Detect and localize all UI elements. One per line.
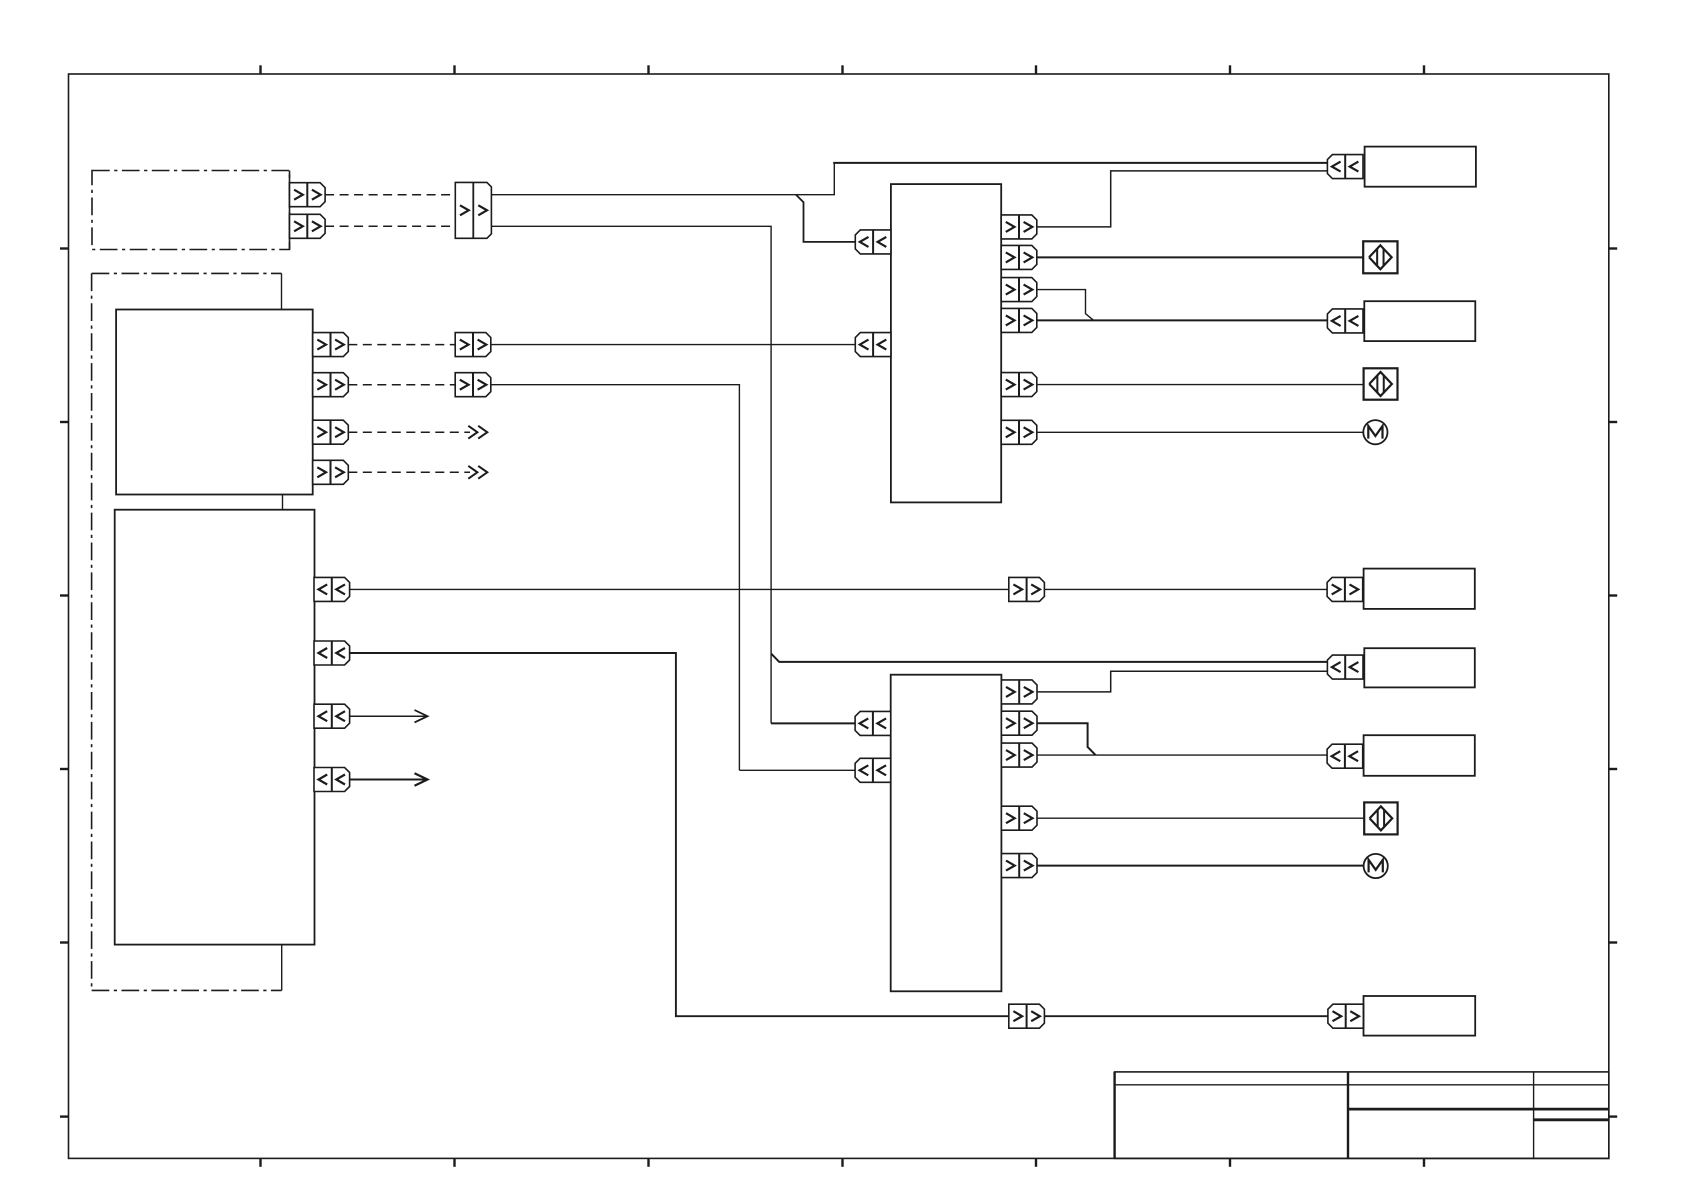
top border tick 5 <box>1035 65 1037 74</box>
connector E1 <box>314 577 350 601</box>
terminator T4 <box>1364 648 1475 687</box>
region C solid stub from box E <box>281 945 283 991</box>
module M2 <box>891 675 1002 992</box>
wire W2 from B down <box>491 226 771 723</box>
wire W4 into module M2 left input <box>739 769 855 771</box>
connector T5c <box>1327 744 1363 768</box>
bottom border tick 2 <box>453 1158 455 1166</box>
terminator T5 <box>1364 735 1475 776</box>
wire W11 M1-R5 to valve V2 <box>1037 384 1364 386</box>
region C dash-dot left edge <box>91 273 93 990</box>
connector M2-R2 <box>1001 711 1037 735</box>
wire W10 M1-R4 to T2 <box>1037 319 1328 321</box>
bottom border tick 3 <box>647 1158 649 1166</box>
connector E2 <box>314 641 350 665</box>
left border tick 4 <box>60 768 69 770</box>
wire W7 M1-R1 up to T1 <box>1037 171 1328 227</box>
region C dash-dot top edge <box>92 272 282 274</box>
connector M2-L2 <box>855 758 891 782</box>
connector E4 <box>314 768 350 792</box>
dashed wire D1 to P1 <box>348 344 455 346</box>
top border tick 4 <box>841 65 843 74</box>
right border tick 6 <box>1609 1115 1617 1117</box>
dashed wire A2 to B <box>325 225 455 227</box>
arrow E3 off-sheet <box>350 715 428 717</box>
connector M1-R2 <box>1001 245 1037 269</box>
wire W3 P1 to module M1 left <box>491 344 856 346</box>
wire W14 M2-R2 jog <box>1037 723 1096 755</box>
box A dash-dot enclosure <box>92 171 290 250</box>
box E control unit <box>115 510 315 945</box>
connector pair P3 <box>1009 577 1045 601</box>
title block left edge bold <box>1113 1072 1115 1159</box>
motor M4 <box>1364 854 1388 878</box>
wire W16 M2-R4 to valve V3 <box>1037 817 1364 819</box>
connector pair P4 <box>1009 1004 1045 1028</box>
bottom border tick 6 <box>1229 1158 1231 1166</box>
connector M1-L1 <box>855 230 891 254</box>
motor M3 <box>1363 420 1387 444</box>
top border tick 1 <box>259 65 261 74</box>
top border tick 7 <box>1423 65 1425 74</box>
top border tick 6 <box>1229 65 1231 74</box>
wire W1 from B to step <box>491 163 834 195</box>
right border tick 3 <box>1609 594 1617 596</box>
connector E3 <box>314 704 350 728</box>
connector D3 <box>313 420 349 444</box>
title block divider 1 <box>1347 1072 1349 1159</box>
connector D1 <box>313 333 349 357</box>
valve V2 <box>1364 368 1398 399</box>
wire W8 M1-R2 to valve V1 <box>1037 256 1363 258</box>
bottom border tick 5 <box>1035 1158 1037 1166</box>
wire W13 M2-R1 up to T4 <box>1037 671 1328 692</box>
connector M1-L2 <box>855 333 891 357</box>
box D control unit <box>116 310 313 495</box>
wire W1 jog to module M1 left input <box>796 195 855 242</box>
module M1 <box>891 184 1001 502</box>
wire W9 M1-R3 jog <box>1037 290 1094 321</box>
connector M2-R5 <box>1001 854 1037 878</box>
connector D2 <box>313 373 349 397</box>
terminator T2 <box>1364 301 1475 341</box>
connector A1 <box>290 183 326 207</box>
connector T2c <box>1327 309 1363 333</box>
region C dash-dot bottom edge <box>92 989 282 991</box>
connector M2-L1 <box>855 711 891 735</box>
connector D4 <box>313 460 349 484</box>
wire W12 M1-R6 to motor M3 <box>1037 431 1364 433</box>
wire W17 M2-R5 to motor M4 <box>1037 865 1364 867</box>
wire W6 P4 to T6 connector <box>1044 1015 1328 1017</box>
wire W2 branch to T4 <box>771 654 1328 662</box>
connector T1c <box>1327 155 1363 179</box>
connector M2-R3 <box>1001 743 1037 767</box>
connector M1-R5 <box>1001 373 1037 397</box>
title block divider 2 <box>1533 1072 1535 1159</box>
bottom border tick 7 <box>1423 1158 1425 1166</box>
wire W4 P2 down to module M2 <box>491 385 740 771</box>
connector T6c <box>1328 1004 1364 1028</box>
title block row line <box>1115 1084 1609 1086</box>
wire W15 M2-R3 to T5 <box>1037 754 1327 756</box>
wire W2 into module M2 left input <box>771 722 855 724</box>
wire W1 thick run to T1 <box>833 162 1328 164</box>
title block outline <box>1115 1072 1609 1159</box>
left border tick 5 <box>60 941 69 943</box>
connector M1-R4 <box>1001 308 1037 332</box>
bottom border tick 4 <box>841 1158 843 1166</box>
valve V3 <box>1364 802 1397 834</box>
connector pair P2 <box>455 373 491 397</box>
left border tick 2 <box>60 421 69 423</box>
right border tick 5 <box>1609 941 1617 943</box>
terminator T3 <box>1364 569 1475 609</box>
connector M2-R1 <box>1001 680 1037 704</box>
connector T3c <box>1327 577 1363 601</box>
link stub box D to box E <box>282 495 284 511</box>
connector M1-R6 <box>1001 420 1037 444</box>
right border tick 4 <box>1609 768 1617 770</box>
arrow E4 off-sheet <box>350 779 428 781</box>
wire W6 E2 long run to P4 <box>350 653 1009 1016</box>
left border tick 1 <box>60 247 69 249</box>
dashed wire D2 to P2 <box>348 384 455 386</box>
title block bold line right <box>1534 1118 1609 1121</box>
connector pair P1 <box>455 333 491 357</box>
top border tick 2 <box>453 65 455 74</box>
wire W5 E1 to pair P3 <box>350 588 1009 590</box>
box A right edge solid <box>289 171 291 250</box>
connector T4c <box>1327 655 1363 679</box>
terminator T6 <box>1364 996 1476 1036</box>
connector M1-R3 <box>1001 278 1037 302</box>
terminator T1 <box>1365 147 1476 187</box>
left border tick 3 <box>60 594 69 596</box>
region C solid stub to box D <box>281 273 283 309</box>
dashed wire A1 to B <box>325 194 455 196</box>
wire W5 P3 to T3 connector <box>1044 588 1327 590</box>
left border tick 6 <box>60 1115 69 1117</box>
dashed arrow D4 off-sheet <box>348 471 470 473</box>
right border tick 2 <box>1609 421 1617 423</box>
right border tick 1 <box>1609 247 1617 249</box>
dashed arrow D3 off-sheet <box>348 431 470 433</box>
connector M1-R1 <box>1001 215 1037 239</box>
top border tick 3 <box>647 65 649 74</box>
connector B double <box>455 182 491 238</box>
title block bold line mid <box>1348 1108 1609 1111</box>
valve V1 <box>1363 241 1397 273</box>
connector M2-R4 <box>1001 806 1037 830</box>
connector A2 <box>290 214 326 238</box>
bottom border tick 1 <box>259 1158 261 1166</box>
